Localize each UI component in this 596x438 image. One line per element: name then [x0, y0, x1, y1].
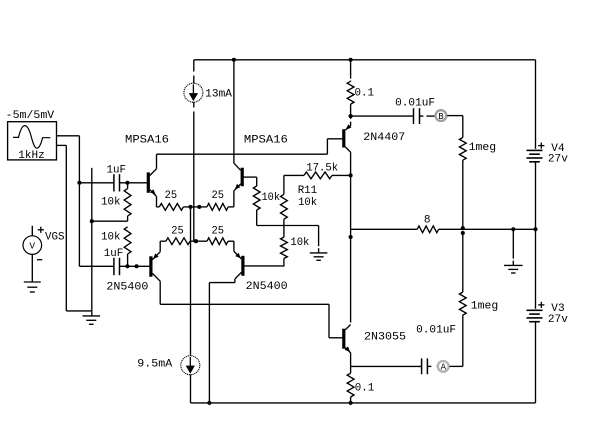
- svg-text:10k: 10k: [101, 196, 121, 208]
- junction dot top pair right: [197, 205, 201, 209]
- wire Q4 base: [243, 265, 285, 267]
- transistor Q5 2N4407: [342, 129, 345, 147]
- junction dot 8row/battery: [533, 227, 537, 231]
- svg-text:27v: 27v: [548, 314, 568, 326]
- junction dot cap1 right: [125, 181, 129, 185]
- wire bottom rail: [191, 402, 536, 404]
- resistor 17.5k: [304, 172, 332, 179]
- svg-text:MPSA16: MPSA16: [244, 135, 288, 147]
- wire output column: [350, 175, 352, 322]
- svg-text:1meg: 1meg: [469, 142, 497, 154]
- junction dot top pair left: [188, 205, 192, 209]
- wire Q2 collector to top rail: [233, 60, 235, 163]
- transistor Q1 MPSA16 left: [147, 172, 150, 192]
- battery V4: [527, 149, 543, 151]
- wire top rail: [194, 59, 536, 61]
- wire node B to 1meg: [447, 115, 463, 117]
- junction dot 2N4407 collector/17.5k: [349, 173, 353, 177]
- svg-text:10k: 10k: [101, 232, 121, 244]
- transistor Q3 2N5400 left: [149, 256, 152, 277]
- svg-text:17.5k: 17.5k: [306, 163, 338, 175]
- current source I1 13mA: [193, 60, 195, 72]
- wire battery column top: [535, 60, 537, 149]
- svg-text:8: 8: [424, 214, 431, 226]
- wire 8-ohm row left: [351, 228, 418, 230]
- ground mid right: [504, 264, 523, 266]
- capacitor 0.01uF top: [413, 108, 415, 124]
- wire between top pair dots: [191, 206, 200, 208]
- resistor 25 bottom-left: [160, 240, 166, 242]
- wire emitter node A row: [351, 365, 422, 367]
- transistor Q6 2N3055: [342, 329, 345, 349]
- svg-text:13mA: 13mA: [205, 89, 232, 101]
- wire source minus down: [65, 145, 67, 311]
- junction dot rail 0.1: [349, 401, 353, 405]
- voltmeter VGS: [23, 236, 42, 255]
- wire 8-ohm row right: [439, 228, 536, 230]
- wire bottom pair middle: [190, 240, 207, 242]
- svg-text:10k: 10k: [298, 197, 317, 209]
- wire node A to 1meg lower: [450, 365, 463, 367]
- svg-text:V3: V3: [551, 303, 564, 315]
- resistor 10k lower (Q4 base): [281, 237, 288, 258]
- resistor 8: [417, 226, 438, 233]
- svg-text:25: 25: [171, 225, 184, 237]
- svg-text:MPSA16: MPSA16: [125, 135, 169, 147]
- resistor 1meg upper: [459, 138, 466, 161]
- battery V3: [527, 309, 543, 311]
- wire emitter node to 0.01uF: [351, 115, 414, 117]
- wire Q1 collector to 2N4407 base: [157, 153, 328, 155]
- resistor R11 10k: [283, 175, 285, 194]
- wire source minus stub: [57, 144, 67, 146]
- svg-text:2N5400: 2N5400: [106, 281, 148, 293]
- junction dot divider mid: [90, 219, 94, 223]
- wire R11 top to 17.5k: [284, 174, 304, 176]
- ground below VGS: [24, 281, 41, 283]
- wire Q4 collector down to rail: [208, 283, 210, 403]
- resistor 25 top-right: [199, 206, 207, 208]
- wire source plus down to input node: [78, 136, 80, 266]
- junction dot input-top: [77, 181, 81, 185]
- resistor 0.1 bottom: [350, 366, 352, 373]
- ground Q2 base network: [310, 252, 328, 254]
- wire Q4 collector left: [209, 282, 235, 284]
- node B bubble: [436, 110, 447, 121]
- junction dot rail R0.1: [349, 58, 353, 62]
- svg-text:1meg: 1meg: [471, 300, 499, 312]
- junction dot 8row/1meg a: [461, 226, 465, 230]
- source V1 -5m/5mV 1kHz box: [8, 122, 57, 160]
- svg-text:R11: R11: [298, 185, 318, 197]
- junction dot 8row/1meg b: [461, 231, 465, 235]
- resistor 25 top-left: [157, 206, 160, 208]
- junction dot bottom pair: [194, 239, 198, 243]
- junction dot rail Q4 collector: [207, 401, 211, 405]
- junction dot output below 8-row: [349, 235, 353, 239]
- resistor 10k divider upper: [127, 183, 129, 189]
- svg-text:10k: 10k: [262, 192, 281, 204]
- wire R11 to lower 10k: [283, 219, 285, 237]
- wire divider mid to ground line: [92, 220, 128, 222]
- svg-text:2N4407: 2N4407: [363, 132, 405, 144]
- current source I2 9.5mA: [190, 354, 192, 356]
- svg-text:A: A: [441, 363, 447, 373]
- capacitor 0.01uF bottom: [421, 358, 423, 374]
- svg-text:0.1: 0.1: [355, 383, 375, 395]
- wire source minus to ground: [66, 310, 91, 312]
- transistor Q4 2N5400 right: [241, 256, 244, 276]
- svg-text:25: 25: [212, 190, 225, 202]
- wire source plus stub: [57, 135, 80, 137]
- resistor 10k divider lower: [124, 227, 131, 254]
- junction dot cap2 right: [125, 264, 129, 268]
- svg-text:B: B: [438, 112, 444, 122]
- svg-text:1uF: 1uF: [107, 164, 127, 176]
- resistor 0.1 top: [350, 60, 352, 79]
- node A bubble: [438, 361, 449, 372]
- wire Q2 base 10k to ground: [257, 225, 319, 227]
- svg-text:2N5400: 2N5400: [246, 281, 288, 293]
- capacitor C1 1uF top: [113, 174, 115, 191]
- ground line left (dangling top): [91, 168, 93, 316]
- svg-text:0.01uF: 0.01uF: [395, 97, 435, 109]
- junction dot cap2 right2: [135, 264, 139, 268]
- wire Q2 base: [242, 176, 257, 178]
- svg-text:1uF: 1uF: [104, 248, 124, 260]
- junction dot 2N4407 emitter node: [349, 114, 353, 118]
- svg-text:9.5mA: 9.5mA: [137, 359, 172, 371]
- svg-text:0.1: 0.1: [355, 88, 375, 100]
- wire mid ground branch: [512, 229, 514, 258]
- wire battery column mid: [535, 229, 537, 308]
- svg-text:-5m/5mV: -5m/5mV: [6, 110, 55, 122]
- svg-text:10k: 10k: [290, 237, 309, 249]
- svg-text:1kHz: 1kHz: [18, 150, 45, 162]
- svg-text:25: 25: [212, 226, 225, 238]
- svg-text:2N3055: 2N3055: [364, 331, 406, 343]
- junction dot 8row/ground: [511, 227, 515, 231]
- svg-text:0.01uF: 0.01uF: [416, 325, 456, 337]
- svg-text:25: 25: [165, 190, 178, 202]
- wire top pair tail down: [190, 207, 192, 354]
- junction dot rail Q2: [232, 58, 236, 62]
- resistor 25 bottom-right: [207, 238, 228, 245]
- resistor 1meg lower: [459, 292, 466, 315]
- capacitor C2 1uF bottom: [113, 258, 115, 275]
- svg-text:V: V: [29, 241, 35, 252]
- transistor Q2 MPSA16 right: [241, 168, 244, 187]
- ground left GND: [83, 315, 101, 317]
- resistor 10k Q2 base: [256, 177, 258, 186]
- svg-text:VGS: VGS: [45, 232, 65, 244]
- svg-text:27v: 27v: [548, 154, 568, 166]
- wire Q3 collector to 2N3055 base: [160, 303, 329, 305]
